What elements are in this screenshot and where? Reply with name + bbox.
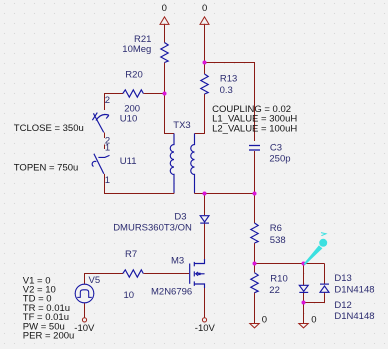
svg-text:1: 1 bbox=[105, 175, 110, 186]
svg-text:0.3: 0.3 bbox=[220, 85, 233, 96]
svg-text:M3: M3 bbox=[171, 256, 184, 267]
svg-text:10: 10 bbox=[124, 290, 135, 301]
svg-text:2: 2 bbox=[105, 95, 110, 106]
svg-text:PER = 200u: PER = 200u bbox=[23, 331, 75, 342]
svg-text:TX3: TX3 bbox=[173, 120, 190, 131]
svg-text:22: 22 bbox=[269, 285, 280, 296]
svg-text:R13: R13 bbox=[220, 74, 237, 85]
svg-text:R10: R10 bbox=[270, 274, 287, 285]
svg-text:-10V: -10V bbox=[74, 323, 95, 334]
svg-text:L2_VALUE = 100uH: L2_VALUE = 100uH bbox=[212, 123, 297, 134]
svg-text:M2N6796: M2N6796 bbox=[151, 287, 192, 298]
svg-text:-10V: -10V bbox=[195, 323, 216, 334]
svg-text:0: 0 bbox=[162, 3, 167, 14]
svg-text:R20: R20 bbox=[125, 70, 142, 81]
svg-text:0: 0 bbox=[311, 315, 316, 326]
svg-text:TCLOSE = 350u: TCLOSE = 350u bbox=[14, 123, 84, 134]
svg-text:D13: D13 bbox=[334, 273, 351, 284]
svg-text:DMURS360T3/ON: DMURS360T3/ON bbox=[113, 223, 192, 234]
svg-text:0: 0 bbox=[202, 3, 207, 14]
svg-text:D1N4148: D1N4148 bbox=[334, 311, 374, 322]
svg-text:U11: U11 bbox=[120, 156, 137, 167]
svg-text:C3: C3 bbox=[270, 142, 282, 153]
svg-text:U10: U10 bbox=[120, 113, 137, 124]
svg-text:1: 1 bbox=[105, 143, 110, 154]
svg-text:D3: D3 bbox=[174, 212, 186, 223]
svg-text:V5: V5 bbox=[89, 275, 101, 286]
svg-text:250p: 250p bbox=[269, 153, 290, 164]
svg-text:R7: R7 bbox=[125, 249, 137, 260]
svg-text:D12: D12 bbox=[334, 300, 351, 311]
svg-text:0: 0 bbox=[262, 315, 267, 326]
svg-text:TOPEN = 750u: TOPEN = 750u bbox=[14, 162, 79, 173]
svg-text:538: 538 bbox=[270, 235, 286, 246]
svg-text:R6: R6 bbox=[270, 223, 282, 234]
svg-text:D1N4148: D1N4148 bbox=[334, 284, 374, 295]
svg-text:10Meg: 10Meg bbox=[122, 44, 151, 55]
